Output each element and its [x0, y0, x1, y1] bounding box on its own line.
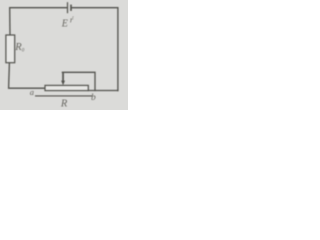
svg-text:b: b: [91, 93, 96, 103]
resistor R0 box: [6, 35, 15, 63]
svg-text:r: r: [70, 14, 74, 24]
battery E r : short thick plate: [70, 5, 72, 11]
svg-text:a: a: [30, 87, 34, 97]
wire bottom-right from rheostat b end to right vertical: [88, 90, 118, 92]
wire left vertical below R0 and bottom-left to node a: [9, 63, 45, 88]
rheostat R box: [45, 85, 88, 90]
label line a-b under rheostat: [35, 95, 92, 97]
svg-text:E: E: [61, 18, 68, 29]
wire slider arm to right loop: [62, 72, 95, 90]
svg-text:R: R: [60, 98, 68, 109]
svg-text:0: 0: [22, 49, 25, 54]
rheostat slider arrow: [61, 72, 65, 85]
wire top-left segment and left vertical upper: [10, 8, 67, 35]
battery E r : long plate: [67, 2, 69, 13]
wire top-right segment and right vertical: [71, 8, 118, 91]
label r prime tick: [72, 16, 73, 17]
